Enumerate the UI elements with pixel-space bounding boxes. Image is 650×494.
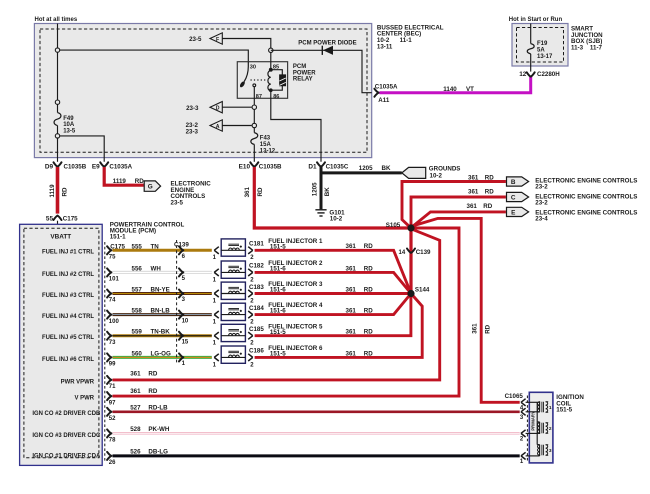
svg-text:2: 2 — [549, 426, 552, 432]
svg-text:1: 1 — [213, 277, 217, 283]
wire: injector 1 to S144 — [255, 250, 411, 293]
svg-text:1: 1 — [213, 298, 217, 304]
svg-text:1205: 1205 — [311, 182, 318, 196]
wire: F49 to D9 — [57, 138, 59, 162]
wire — [253, 148, 255, 162]
svg-text:528: 528 — [130, 426, 141, 433]
svg-text:F49: F49 — [63, 116, 74, 122]
wire — [222, 125, 251, 127]
svg-text:F43: F43 — [260, 136, 271, 142]
wire: 23-5 to relay coil — [222, 39, 270, 49]
svg-text:ELECTRONIC ENGINE CONTROLS: ELECTRONIC ENGINE CONTROLS — [535, 177, 637, 184]
svg-text:1: 1 — [549, 405, 552, 411]
svg-text:78: 78 — [109, 438, 116, 444]
connector D9 C1035B — [54, 162, 62, 166]
diode CR1 — [321, 46, 323, 55]
svg-text:23-4: 23-4 — [535, 216, 548, 223]
svg-text:23-3: 23-3 — [186, 129, 199, 136]
wire: injector 2 to S144 — [255, 272, 411, 293]
junction — [252, 123, 256, 127]
svg-text:13-5: 13-5 — [63, 129, 76, 135]
svg-text:FUEL INJ #4 CTRL: FUEL INJ #4 CTRL — [42, 314, 94, 320]
wire: S105 down to S144 — [409, 228, 412, 294]
svg-text:23-2: 23-2 — [535, 184, 548, 191]
relay core — [279, 75, 285, 86]
svg-text:10A: 10A — [63, 122, 75, 128]
svg-text:ELECTRONIC ENGINE CONTROLS: ELECTRONIC ENGINE CONTROLS — [535, 209, 637, 216]
svg-text:RD: RD — [485, 189, 494, 196]
svg-text:FUEL INJ #5 CTRL: FUEL INJ #5 CTRL — [42, 335, 94, 341]
wire: F49 branch to E9 — [60, 136, 104, 162]
svg-text:C: C — [511, 194, 516, 201]
svg-text:A11: A11 — [378, 97, 390, 104]
svg-text:5: 5 — [182, 276, 186, 282]
svg-text:FUEL INJ #1 CTRL: FUEL INJ #1 CTRL — [42, 250, 94, 256]
svg-text:75: 75 — [109, 255, 116, 261]
svg-text:RD: RD — [62, 187, 69, 196]
connector C139 pin 10 — [179, 311, 183, 319]
junction — [252, 105, 256, 109]
svg-text:2: 2 — [250, 298, 254, 304]
wire 1205 BK to G101 — [320, 173, 323, 209]
svg-text:FUEL INJ #6 CTRL: FUEL INJ #6 CTRL — [42, 357, 94, 363]
svg-text:361: 361 — [467, 203, 478, 210]
svg-text:6: 6 — [182, 254, 186, 260]
svg-text:73: 73 — [109, 340, 116, 346]
svg-text:VT: VT — [466, 86, 474, 93]
relay switch contact — [253, 84, 256, 87]
svg-text:IGN CO #2 DRIVER CDB: IGN CO #2 DRIVER CDB — [32, 411, 101, 417]
off-page arrow D 23-3 — [210, 102, 222, 113]
connector C1065 pin 1 — [521, 452, 526, 456]
off-page arrow A 23-2 / 23-3 — [210, 120, 222, 131]
injector pin 2 / connector C182 — [248, 269, 253, 273]
Powertrain Control Module (PCM) box — [20, 224, 103, 465]
connector C139 pin 15 — [179, 332, 183, 340]
fuel injector 2 box C182 — [221, 261, 245, 278]
coil internal primary bus — [536, 402, 538, 444]
svg-text:13-12: 13-12 — [260, 149, 276, 155]
svg-text:PCM: PCM — [293, 64, 306, 70]
svg-text:10: 10 — [182, 318, 189, 324]
off-page flag C — [507, 192, 529, 201]
svg-text:2: 2 — [250, 341, 254, 347]
relay coil frame — [271, 70, 283, 91]
svg-text:RD: RD — [148, 371, 157, 378]
wire: relay 87 down — [253, 98, 255, 129]
svg-text:C1035A: C1035A — [375, 83, 398, 90]
svg-text:Hot in Start or Run: Hot in Start or Run — [509, 17, 563, 23]
svg-text:C1035C: C1035C — [326, 163, 349, 170]
connector C1035A pin A11 — [374, 89, 378, 97]
svg-text:2: 2 — [250, 255, 254, 261]
svg-text:23-5: 23-5 — [171, 200, 184, 207]
svg-text:GROUNDS: GROUNDS — [429, 165, 461, 172]
off-page flag B — [507, 177, 529, 186]
svg-text:C184: C184 — [249, 305, 264, 312]
svg-text:C181: C181 — [249, 241, 264, 248]
svg-text:23-3: 23-3 — [186, 105, 199, 112]
injector pin 2 / connector C184 — [248, 311, 253, 315]
injector pin 1 — [214, 332, 219, 336]
wire: S105 to PWR VPWR (361 RD) — [113, 230, 440, 380]
svg-text:Hot at all times: Hot at all times — [35, 17, 78, 23]
connector E10 C1035B — [250, 162, 258, 166]
svg-text:1140: 1140 — [443, 86, 457, 93]
svg-text:D1: D1 — [308, 163, 317, 170]
svg-text:151-5: 151-5 — [556, 407, 572, 414]
wire 526 DB-LG — [113, 454, 520, 457]
svg-text:S144: S144 — [415, 286, 430, 293]
connector C1065 dashed line — [526, 396, 528, 462]
connector C175 dashed line — [104, 242, 106, 462]
injector pin 1 — [214, 269, 219, 273]
svg-text:C2280H: C2280H — [537, 71, 560, 78]
svg-text:13-17: 13-17 — [537, 54, 553, 60]
svg-text:527: 527 — [130, 404, 141, 411]
svg-text:D: D — [216, 106, 220, 112]
injector pin 1 — [214, 311, 219, 315]
svg-text:1: 1 — [182, 361, 186, 367]
svg-text:F: F — [216, 37, 219, 43]
connector C139 pin 3 — [179, 290, 183, 298]
Smart Junction Box (SJB) — [512, 24, 568, 67]
svg-text:BK: BK — [324, 187, 331, 196]
splice S144 — [408, 290, 415, 297]
svg-text:15A: 15A — [260, 142, 272, 148]
svg-text:S105: S105 — [386, 222, 401, 229]
svg-text:C175: C175 — [63, 216, 78, 223]
svg-text:74: 74 — [109, 298, 116, 304]
svg-text:VBATT: VBATT — [50, 234, 71, 241]
wire: S105 to V PWR (361 RD) — [113, 228, 460, 396]
svg-text:14: 14 — [399, 250, 406, 256]
wire 557 BN-YE — [113, 292, 212, 295]
splice S105 — [408, 225, 415, 232]
svg-text:23-2: 23-2 — [535, 200, 548, 207]
svg-text:E9: E9 — [92, 163, 100, 170]
svg-text:PCM POWER DIODE: PCM POWER DIODE — [298, 40, 356, 46]
svg-text:71: 71 — [109, 384, 116, 390]
svg-text:C182: C182 — [249, 263, 264, 270]
svg-text:RELAY: RELAY — [293, 77, 313, 83]
svg-text:23-5: 23-5 — [189, 36, 202, 43]
svg-text:97: 97 — [109, 400, 116, 406]
svg-text:RD-LB: RD-LB — [148, 404, 168, 411]
relay coil — [270, 48, 272, 70]
svg-text:361: 361 — [471, 323, 478, 334]
injector pin 2 / connector C183 — [248, 290, 253, 294]
coil transformer 1 — [538, 402, 540, 413]
injector pin 2 / connector C186 — [248, 354, 253, 358]
svg-text:C139: C139 — [416, 249, 431, 256]
wire 527 RD-LB — [113, 410, 520, 413]
injector pin 1 — [214, 290, 219, 294]
svg-text:1119: 1119 — [113, 178, 127, 185]
wire: S105 to flag E — [413, 212, 506, 227]
wire: injector 3 to S144 — [255, 292, 411, 295]
svg-text:12: 12 — [519, 71, 527, 78]
svg-text:3: 3 — [182, 297, 186, 303]
wire 555 TN — [113, 249, 212, 252]
svg-text:101: 101 — [109, 277, 120, 283]
connector D1 C1035C — [317, 162, 325, 166]
junction — [269, 48, 273, 52]
injector pin 2 / connector C185 — [248, 332, 253, 336]
svg-text:2: 2 — [250, 277, 254, 283]
svg-text:30: 30 — [250, 65, 256, 71]
svg-text:100: 100 — [109, 319, 120, 325]
connector C139 pin 5 — [179, 268, 183, 276]
svg-text:E: E — [511, 209, 516, 216]
svg-text:D9: D9 — [45, 163, 54, 170]
svg-text:2: 2 — [520, 437, 524, 443]
coil transformer 3 — [538, 445, 540, 456]
injector pin 2 / connector C181 — [248, 247, 253, 251]
ground G101 — [315, 209, 326, 211]
wire — [222, 106, 251, 108]
svg-text:A: A — [216, 124, 220, 130]
svg-text:RD: RD — [257, 187, 264, 196]
svg-text:86: 86 — [273, 94, 279, 100]
wire: S105 to ignition coil pin 4 (361 RD) — [413, 218, 520, 402]
fuel injector 6 box C186 — [221, 346, 245, 363]
svg-text:RD: RD — [135, 178, 144, 185]
Bussed Electrical Center (BEC) box — [34, 24, 371, 158]
svg-text:361: 361 — [130, 388, 141, 395]
svg-text:26: 26 — [109, 460, 116, 466]
svg-text:G: G — [148, 184, 153, 191]
wire — [530, 57, 532, 72]
fuel injector 5 box C185 — [221, 324, 245, 341]
connector C1065 pin 2 — [521, 430, 526, 434]
svg-text:E10: E10 — [239, 163, 251, 170]
svg-text:F19: F19 — [537, 41, 548, 47]
grounds flag — [402, 167, 426, 178]
svg-text:13-11: 13-11 — [377, 44, 393, 51]
coil transformer 2 — [538, 423, 540, 434]
svg-text:10-2: 10-2 — [330, 216, 343, 223]
connector C139 dashed line — [176, 240, 178, 365]
svg-text:PK-WH: PK-WH — [148, 426, 169, 433]
svg-text:POWER: POWER — [293, 70, 316, 76]
relay switch arm — [244, 62, 248, 82]
svg-text:C185: C185 — [249, 326, 264, 333]
relay K1 PCM POWER RELAY box — [237, 62, 287, 99]
wire 558 BN-LB — [113, 313, 212, 316]
svg-text:FUEL INJ #2 CTRL: FUEL INJ #2 CTRL — [42, 272, 94, 278]
wire: S105 to flag B — [402, 182, 506, 227]
svg-text:361: 361 — [468, 174, 479, 181]
fuse F19 5A — [530, 41, 532, 44]
svg-text:15: 15 — [182, 339, 189, 345]
svg-text:11-3 11-7: 11-3 11-7 — [571, 45, 603, 52]
svg-text:V PWR: V PWR — [75, 396, 95, 402]
svg-text:RD: RD — [483, 203, 492, 210]
svg-text:C1065: C1065 — [505, 393, 524, 400]
svg-text:1: 1 — [213, 362, 217, 368]
svg-text:361: 361 — [244, 187, 251, 198]
svg-text:5A: 5A — [537, 47, 545, 53]
svg-text:1: 1 — [213, 255, 217, 261]
fuel injector 4 box C184 — [221, 303, 245, 320]
wire: injector 4 to S144 — [255, 294, 411, 315]
wire 1119 RD VBATT — [56, 167, 60, 214]
wire 528 PK-WH — [113, 432, 520, 434]
wire: injector 5 to S144 — [255, 294, 411, 336]
fuse F43 15A — [253, 129, 255, 133]
svg-text:2: 2 — [250, 362, 254, 368]
svg-text:IGN CO #1 DRIVER CDA: IGN CO #1 DRIVER CDA — [32, 454, 101, 460]
wire in SJB — [530, 24, 532, 41]
svg-text:B: B — [511, 179, 516, 186]
wire: hot feed vertical — [57, 24, 59, 103]
svg-text:361: 361 — [468, 189, 479, 196]
svg-text:1119: 1119 — [49, 184, 56, 198]
svg-text:87: 87 — [256, 94, 262, 100]
off-page flag G — [144, 181, 160, 191]
svg-text:C1035A: C1035A — [109, 163, 132, 170]
wire 556 WH — [113, 271, 212, 274]
connector C1065 pin 4 — [521, 399, 526, 403]
svg-text:C1035B: C1035B — [259, 163, 282, 170]
svg-text:2: 2 — [250, 320, 254, 326]
svg-text:PWR VPWR: PWR VPWR — [61, 379, 95, 385]
wire: relay 86 to D1 — [271, 90, 321, 162]
wire 560 LG-OG — [113, 356, 212, 359]
svg-text:1205: 1205 — [359, 165, 373, 172]
injector pin 1 — [214, 247, 219, 251]
svg-text:1: 1 — [213, 341, 217, 347]
svg-text:FUEL INJ #3 CTRL: FUEL INJ #3 CTRL — [42, 293, 94, 299]
svg-text:1: 1 — [213, 320, 217, 326]
svg-text:C139: C139 — [174, 242, 189, 249]
svg-text:PRIMARY: PRIMARY — [531, 411, 536, 430]
fuse F49 10A — [57, 105, 59, 113]
connector C1065 pin 3 — [521, 408, 526, 412]
svg-text:99: 99 — [109, 362, 116, 368]
svg-text:C1035B: C1035B — [64, 163, 87, 170]
connector C2280H pin 12 — [527, 72, 535, 76]
wire: S105 to flag C — [411, 197, 506, 228]
svg-text:3: 3 — [520, 415, 524, 421]
wire 361 RD from E10 to S105 — [254, 167, 407, 228]
off-page flag E — [507, 207, 529, 216]
svg-text:52: 52 — [109, 416, 116, 422]
wire 1140 VT (violet) — [380, 77, 531, 93]
svg-text:55: 55 — [46, 216, 54, 223]
relay armature dotted link — [251, 79, 269, 81]
svg-text:361: 361 — [130, 371, 141, 378]
svg-text:3: 3 — [549, 448, 552, 454]
ignition coil box — [529, 392, 553, 463]
wire: injector 6 to S144 — [255, 294, 423, 358]
wire: top feed horizontal to relay pin 30 — [58, 50, 249, 62]
connector C139 pin 1 — [179, 353, 183, 361]
connector C175 pin 55 — [54, 216, 62, 220]
svg-text:C186: C186 — [249, 348, 264, 355]
wire 1205 BK from D1 to grounds — [321, 167, 402, 173]
svg-text:RD: RD — [485, 174, 494, 181]
svg-text:1: 1 — [520, 459, 524, 465]
svg-text:10-2: 10-2 — [430, 173, 443, 180]
svg-text:RD: RD — [484, 324, 491, 333]
svg-text:IGN CO #3 DRIVER CDC: IGN CO #3 DRIVER CDC — [32, 433, 101, 439]
svg-text:151-1: 151-1 — [110, 234, 126, 241]
svg-text:BK: BK — [382, 165, 391, 172]
junction — [55, 48, 59, 52]
wire: junction to diode to C1035A exit — [271, 50, 372, 92]
fuel injector 1 box C181 — [221, 239, 245, 256]
connector C139 pin 14 — [407, 249, 415, 253]
svg-text:RD: RD — [148, 388, 157, 395]
off-page arrow F 23-5 — [210, 33, 222, 44]
wire 1119 RD to G — [104, 167, 144, 185]
connector E9 C1035A — [100, 162, 108, 166]
fuel injector 3 box C183 — [221, 282, 245, 299]
injector pin 1 — [214, 354, 219, 358]
svg-text:C183: C183 — [249, 284, 264, 291]
wire 559 TN-BK — [113, 334, 212, 337]
connector C139 pin 6 — [179, 246, 183, 254]
svg-text:ELECTRONIC ENGINE CONTROLS: ELECTRONIC ENGINE CONTROLS — [535, 193, 637, 200]
